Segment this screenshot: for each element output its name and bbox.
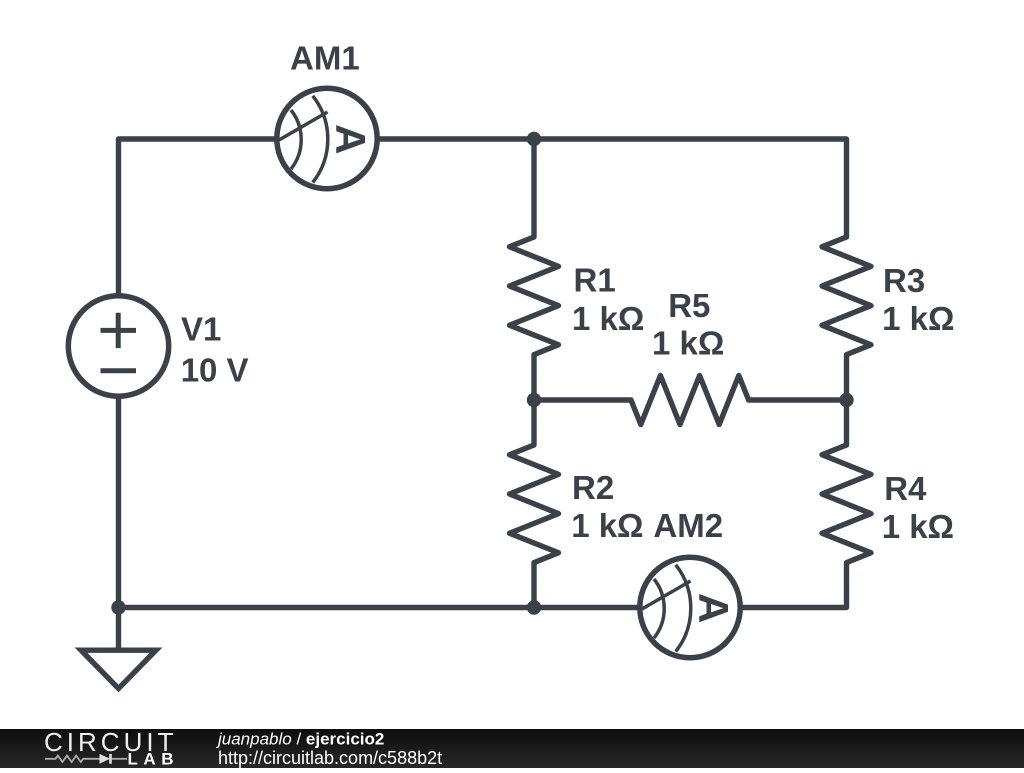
logo diode xyxy=(100,754,111,764)
svg-text:juanpablo / ejercicio2: juanpablo / ejercicio2 xyxy=(216,729,384,748)
svg-text:A: A xyxy=(327,124,374,154)
svg-text:R4: R4 xyxy=(884,470,927,507)
svg-text:AM2: AM2 xyxy=(653,507,723,544)
svg-text:1 kΩ: 1 kΩ xyxy=(572,300,644,337)
svg-text:R3: R3 xyxy=(883,262,925,299)
svg-text:1 kΩ: 1 kΩ xyxy=(882,300,954,337)
ammeter AM2 xyxy=(640,557,740,657)
footer bar xyxy=(0,729,1024,768)
voltage source V1 xyxy=(68,296,168,396)
svg-text:1 kΩ: 1 kΩ xyxy=(652,325,724,362)
node bottom-left (ground junction) xyxy=(111,600,125,614)
resistor R1 xyxy=(510,139,559,400)
svg-text:1 kΩ: 1 kΩ xyxy=(882,508,954,545)
svg-text:R1: R1 xyxy=(574,261,616,298)
svg-text:http://circuitlab.com/c588b2t: http://circuitlab.com/c588b2t xyxy=(218,748,442,768)
resistor R2 xyxy=(510,400,559,608)
wire left rail + top rail + resistor R3 xyxy=(119,139,872,608)
svg-text:1 kΩ: 1 kΩ xyxy=(571,507,643,544)
node mid-right xyxy=(839,393,853,407)
svg-text:A: A xyxy=(690,593,737,623)
ground xyxy=(81,608,156,689)
node mid-left xyxy=(527,393,541,407)
ammeter AM1 xyxy=(277,88,377,188)
svg-text:10 V: 10 V xyxy=(181,352,249,389)
svg-text:R2: R2 xyxy=(572,469,614,506)
resistor R4 + wire bottom rail xyxy=(119,400,872,608)
svg-text:V1: V1 xyxy=(181,311,221,348)
logo wire with resistor xyxy=(45,756,100,762)
node top (R1/top rail junction) xyxy=(527,132,541,146)
resistor R5 xyxy=(534,376,847,425)
svg-text:R5: R5 xyxy=(668,287,710,324)
node bottom-mid (R2/bottom rail junction) xyxy=(527,600,541,614)
svg-text:AM1: AM1 xyxy=(290,39,360,76)
svg-text:LAB: LAB xyxy=(128,750,174,769)
